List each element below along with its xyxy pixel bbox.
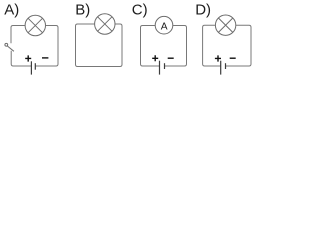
switch S1 contact circle [5,43,8,46]
svg-text:B): B) [75,1,90,18]
svg-text:D): D) [195,1,211,18]
battery B1 short plate (-) [34,63,36,69]
circuit A label [4,1,19,18]
wire A left lower [11,51,31,66]
svg-text:C): C) [132,1,148,18]
battery B3 long plate (+) [220,61,222,75]
battery B2 long plate (+) [159,61,161,75]
lamp L3 circle [215,15,235,35]
lamp L1 circle [25,15,45,35]
lamp L2 circle [95,14,115,34]
battery B1 long plate (+) [30,61,32,74]
battery B1 plus label [25,55,31,61]
battery B3 minus label [230,57,236,59]
lamp L2 cross [98,17,112,31]
wire C top-left [141,26,160,67]
wire D top-left [203,25,221,66]
switch S1 blade [7,46,14,52]
battery B2 minus label [168,57,174,59]
svg-text:A: A [161,22,168,33]
battery B1 minus label [42,57,48,59]
battery B3 plus label [215,55,221,61]
battery B3 short plate (-) [225,63,227,69]
lamp L3 cross [218,18,232,32]
wire C top-right and right side [165,26,187,67]
wire A top-left [11,26,25,44]
battery B2 plus label [152,55,158,61]
battery B2 short plate (-) [164,63,166,69]
lamp L1 cross [28,18,42,32]
wire D top-right and right side [226,25,252,66]
wire B loop [76,24,123,67]
svg-text:A): A) [4,1,19,18]
ammeter M1 circle [155,16,173,34]
wire A top-right and right side [35,26,58,67]
